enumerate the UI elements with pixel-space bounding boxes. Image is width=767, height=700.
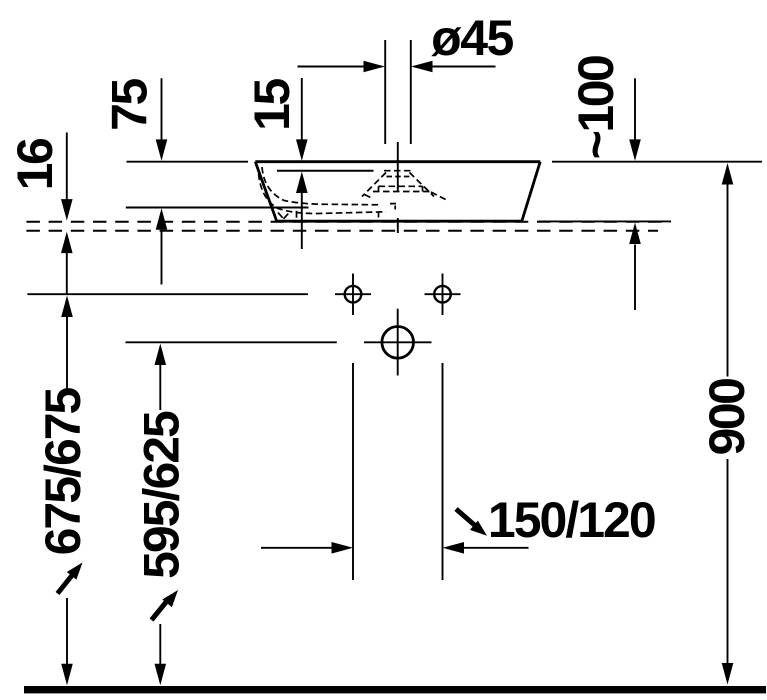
svg-text:900: 900	[699, 379, 755, 456]
arrowhead 150/120 left (points right)	[332, 542, 354, 554]
basin rim extension line left	[127, 161, 249, 163]
drain funnel dashed: inner lip	[387, 176, 411, 178]
drain flange dashed rectangle	[373, 186, 433, 191]
leader arrow (oblique) for 675/675	[58, 574, 74, 594]
dimension 75: upper line	[161, 78, 163, 140]
dimension ø45: right extension line	[410, 40, 412, 144]
countertop top surface dashed line	[26, 221, 668, 223]
faucet hole extension line left	[352, 363, 354, 580]
svg-text:~100: ~100	[568, 56, 624, 159]
arrowhead 900 down	[722, 663, 734, 685]
svg-text:75: 75	[101, 79, 157, 131]
faucet hole extension line right	[442, 363, 444, 580]
dimension 15: upper line	[301, 78, 303, 140]
faucet holes axis line	[27, 293, 308, 295]
arrowhead 595/625 down	[155, 664, 167, 686]
arrowhead 15 down	[296, 139, 308, 161]
leader arrow (oblique) for 150/120	[456, 509, 475, 526]
drain funnel dashed: outer flare right	[410, 173, 448, 201]
dimension 900: upper line	[727, 185, 729, 377]
basin outline: rim	[255, 160, 540, 163]
dimension 16: lower line	[66, 253, 68, 294]
arrowhead 16 up	[61, 232, 73, 254]
svg-text:16: 16	[7, 139, 63, 190]
faucet hole right: crosshair	[425, 274, 461, 316]
drain pipe dashed verticals	[379, 204, 398, 220]
dimension ø45: left dim line	[298, 66, 366, 68]
leader arrow (oblique) for 595/625	[152, 599, 170, 621]
outlet groove dashed hook at basin bottom-left	[278, 211, 297, 219]
dimension 595/625: lower line	[159, 624, 161, 665]
faucet hole left: crosshair	[335, 274, 371, 316]
dimension 595/625: upper line	[159, 365, 161, 411]
drain level axis line	[126, 341, 337, 343]
basin inner bowl contour dashed (lower)	[259, 174, 387, 214]
dimension ø45: right dim line	[431, 66, 496, 68]
svg-text:150/120: 150/120	[488, 492, 655, 548]
drain hole: circle	[382, 327, 414, 359]
dimension 675/675: upper line	[66, 317, 68, 390]
arrowhead 150/120 right (points left)	[443, 542, 465, 554]
dimension ~100: lower line	[634, 245, 636, 311]
basin inner-bottom extension line	[126, 207, 309, 209]
faucet hole left: circle	[345, 286, 362, 303]
dimension ~100: upper line	[634, 78, 636, 140]
drain funnel dashed: outer flare left	[362, 173, 386, 199]
centerline of basin	[397, 142, 399, 233]
arrowhead ~100 up	[629, 223, 641, 245]
basin bottom extension line (right, solid)	[539, 220, 671, 222]
svg-text:675/675: 675/675	[35, 387, 91, 555]
arrowhead 15 up	[296, 172, 308, 194]
arrowhead ø45 left (points right)	[364, 61, 386, 73]
arrowhead ~100 down	[629, 139, 641, 161]
arrowhead 675/675 up	[61, 296, 73, 318]
faucet hole right: circle	[434, 286, 451, 303]
basin outline: right wall	[522, 162, 540, 222]
drain hole: crosshair	[364, 309, 432, 376]
basin outline: left wall	[255, 162, 276, 221]
arrowhead 595/625 up	[155, 344, 167, 366]
dimension 75: lower line	[161, 229, 163, 285]
basin inner bowl contour dashed (upper)	[262, 167, 380, 205]
svg-text:595/625: 595/625	[134, 411, 190, 579]
arrowhead 900 up	[722, 163, 734, 185]
dimension 675/675: lower line	[66, 598, 68, 665]
svg-text:15: 15	[244, 79, 300, 131]
basin outline: bottom	[276, 220, 522, 223]
dimension ø45: left extension line	[384, 40, 386, 144]
drain funnel dashed: top opening	[384, 170, 412, 172]
svg-text:ø45: ø45	[431, 10, 513, 66]
arrowhead 75 up	[156, 208, 168, 230]
basin inner rim line	[277, 170, 374, 172]
dimension 16: upper line	[66, 133, 68, 200]
dimension 150/120: right dim line	[464, 547, 529, 549]
arrowhead 675/675 down	[61, 664, 73, 686]
dimension 900: lower line	[727, 459, 729, 664]
basin rim extension line right	[552, 161, 762, 163]
arrowhead 16 down	[61, 199, 73, 221]
arrowhead ø45 right (points left)	[411, 61, 433, 73]
countertop bottom surface dashed line	[26, 230, 658, 232]
arrowhead 75 down	[156, 139, 168, 161]
dimension 15: lower line	[301, 192, 303, 249]
base floor thick line	[24, 686, 766, 693]
dimension 150/120: left dim line	[261, 547, 332, 549]
